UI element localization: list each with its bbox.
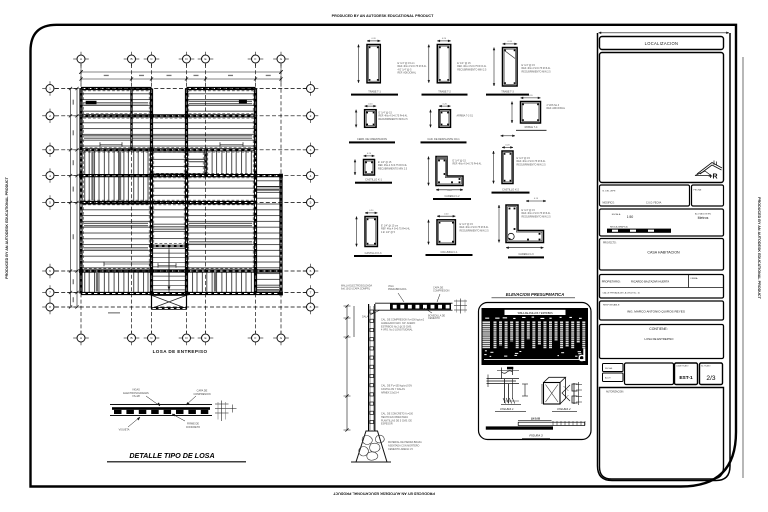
svg-text:CADENA C-3: CADENA C-3 bbox=[518, 253, 534, 256]
svg-text:1: 1 bbox=[49, 87, 51, 91]
svg-text:ESPESOR: ESPESOR bbox=[381, 423, 393, 426]
svg-text:4 E' 1/4" @ 5: 4 E' 1/4" @ 5 bbox=[381, 231, 396, 234]
svg-text:PROYECTO:: PROYECTO: bbox=[603, 242, 617, 244]
svg-text:CASTILLO K-1: CASTILLO K-1 bbox=[365, 179, 382, 182]
svg-text:REGLA GRAFICA: REGLA GRAFICA bbox=[610, 225, 628, 228]
svg-text:FECHA:: FECHA: bbox=[605, 367, 613, 370]
svg-text:REF. ADICIONAL: REF. ADICIONAL bbox=[398, 72, 417, 75]
svg-text:FIGURA 2: FIGURA 2 bbox=[557, 407, 571, 411]
svg-text:DETALLE TIPO DE LOSA: DETALLE TIPO DE LOSA bbox=[129, 451, 214, 460]
svg-text:FIRMA:: FIRMA: bbox=[691, 277, 699, 280]
svg-text:TRABE T-3: TRABE T-3 bbox=[501, 90, 514, 93]
svg-text:CEMENTO: CEMENTO bbox=[428, 317, 440, 320]
svg-text:6x6 10/10 (CAPA COMPR.): 6x6 10/10 (CAPA COMPR.) bbox=[341, 288, 370, 291]
svg-text:LOCALIZACION: LOCALIZACION bbox=[645, 41, 679, 46]
svg-text:ELEVACION PRESUPMATICA: ELEVACION PRESUPMATICA bbox=[506, 292, 564, 297]
svg-text:AUTORIZACION:: AUTORIZACION: bbox=[606, 391, 624, 394]
svg-text:CASTILLO K-2: CASTILLO K-2 bbox=[502, 188, 519, 191]
svg-text:MODIFICO:: MODIFICO: bbox=[603, 203, 615, 205]
svg-text:TRABE T-1: TRABE T-1 bbox=[368, 90, 381, 93]
svg-text:F: F bbox=[255, 57, 257, 61]
svg-text:CADENA C-2: CADENA C-2 bbox=[444, 195, 460, 198]
svg-text:EST-1: EST-1 bbox=[679, 375, 693, 381]
svg-text:PRODUCED BY AN AUTODESK EDUCAT: PRODUCED BY AN AUTODESK EDUCATIONAL PROD… bbox=[332, 492, 434, 496]
svg-text:DALA: DALA bbox=[362, 316, 369, 319]
svg-text:PREFABRICADA: PREFABRICADA bbox=[388, 288, 407, 291]
svg-text:RESPONSABLE:: RESPONSABLE: bbox=[603, 304, 620, 307]
svg-text:E: E bbox=[204, 57, 206, 61]
svg-text:6: 6 bbox=[310, 269, 312, 273]
svg-text:CASTILLO K-3: CASTILLO K-3 bbox=[365, 252, 382, 255]
svg-text:CEMENTO-ARENA 1:5: CEMENTO-ARENA 1:5 bbox=[388, 448, 413, 451]
svg-text:RECUBRIMIENTO MIN 2.5: RECUBRIMIENTO MIN 2.5 bbox=[460, 229, 490, 232]
svg-text:1: 1 bbox=[310, 87, 312, 91]
svg-text:FECHA:: FECHA: bbox=[694, 189, 702, 192]
svg-text:CLAVE PLANO: CLAVE PLANO bbox=[676, 365, 689, 368]
svg-text:PRODUCED BY AN AUTODESK EDUCAT: PRODUCED BY AN AUTODESK EDUCATIONAL PROD… bbox=[5, 176, 9, 278]
svg-text:6: 6 bbox=[49, 269, 51, 273]
svg-text:TRABE T-2: TRABE T-2 bbox=[438, 90, 451, 93]
svg-text:LOSA DE ENTREPISO: LOSA DE ENTREPISO bbox=[645, 337, 675, 341]
svg-text:4: 4 bbox=[49, 174, 51, 178]
svg-text:E: E bbox=[204, 336, 206, 340]
svg-text:Metros: Metros bbox=[698, 216, 709, 220]
svg-text:VIGUETA: VIGUETA bbox=[119, 429, 130, 432]
svg-text:RECUBRIMIENTO MIN 2.5: RECUBRIMIENTO MIN 2.5 bbox=[522, 70, 552, 73]
svg-text:ARRIBA 7-3 S1: ARRIBA 7-3 S1 bbox=[457, 115, 474, 118]
svg-text:PROPIETARIO:: PROPIETARIO: bbox=[602, 279, 621, 283]
svg-text:2/3: 2/3 bbox=[706, 375, 715, 382]
svg-text:7: 7 bbox=[49, 291, 51, 295]
svg-text:RECUBRIMIENTO MIN 2.5: RECUBRIMIENTO MIN 2.5 bbox=[522, 215, 552, 218]
svg-text:RECUBRIMIENTO MIN 2.5: RECUBRIMIENTO MIN 2.5 bbox=[517, 163, 547, 166]
svg-text:ARMEX 15x15-4: ARMEX 15x15-4 bbox=[381, 391, 399, 394]
svg-text:PRODUCED BY AN AUTODESK EDUCAT: PRODUCED BY AN AUTODESK EDUCATIONAL PROD… bbox=[332, 14, 434, 18]
svg-text:ING. MARCO ANTONIO QUIROS REYE: ING. MARCO ANTONIO QUIROS REYES bbox=[627, 310, 685, 314]
svg-text:2: 2 bbox=[49, 114, 51, 118]
svg-text:RECUBRIMIENTO MIN 2.5: RECUBRIMIENTO MIN 2.5 bbox=[379, 118, 409, 121]
svg-text:+R: +R bbox=[708, 174, 717, 181]
svg-text:4: 4 bbox=[310, 174, 312, 178]
svg-text:LOSA DE ENTREPISO: LOSA DE ENTREPISO bbox=[153, 349, 208, 354]
svg-text:CONTIENE:: CONTIENE: bbox=[649, 327, 668, 331]
svg-text:F: F bbox=[255, 336, 257, 340]
svg-text:ESCALA: ESCALA bbox=[612, 213, 621, 216]
svg-text:4 VRS. No.3 LONGITUDINAL: 4 VRS. No.3 LONGITUDINAL bbox=[381, 329, 413, 332]
svg-text:5: 5 bbox=[310, 201, 312, 205]
svg-text:COLUMNA C-1: COLUMNA C-1 bbox=[440, 251, 458, 254]
svg-text:FIGURA 3: FIGURA 3 bbox=[529, 434, 543, 438]
svg-text:7: 7 bbox=[310, 291, 312, 295]
svg-text:ROBLE 7-4: ROBLE 7-4 bbox=[525, 126, 538, 129]
svg-text:3: 3 bbox=[310, 148, 312, 152]
svg-text:RICARDO BALTAZAR HUERTA: RICARDO BALTAZAR HUERTA bbox=[631, 279, 669, 283]
svg-text:CAD. DE DESPLANTE CD-1: CAD. DE DESPLANTE CD-1 bbox=[427, 138, 460, 141]
svg-text:B: B bbox=[130, 57, 132, 61]
svg-text:TABLA DE ANILLOS Y ESTRIBOS: TABLA DE ANILLOS Y ESTRIBOS bbox=[517, 312, 553, 315]
svg-text:VS-4/8: VS-4/8 bbox=[132, 395, 140, 398]
svg-text:3: 3 bbox=[49, 148, 51, 152]
svg-text:1:50: 1:50 bbox=[627, 215, 634, 219]
svg-text:RECUBRIMIENTO MIN 2.5: RECUBRIMIENTO MIN 2.5 bbox=[378, 167, 408, 170]
svg-text:RECUBRIMIENTO MIN 2.5: RECUBRIMIENTO MIN 2.5 bbox=[457, 68, 487, 71]
svg-text:REF. ADICIONAL: REF. ADICIONAL bbox=[547, 107, 566, 110]
svg-text:COMPRESION: COMPRESION bbox=[193, 393, 210, 396]
svg-text:2: 2 bbox=[310, 114, 312, 118]
svg-text:CASA HABITACION: CASA HABITACION bbox=[647, 251, 680, 255]
svg-text:8: 8 bbox=[49, 305, 51, 309]
svg-text:No. PLANO: No. PLANO bbox=[701, 365, 711, 368]
svg-text:8: 8 bbox=[310, 305, 312, 309]
svg-text:ACOT:: ACOT: bbox=[605, 377, 611, 380]
svg-text:CALLE PRIVADA DE LA CRUZ No. 1: CALLE PRIVADA DE LA CRUZ No. 10 bbox=[603, 291, 641, 294]
svg-text:CONCRETO: CONCRETO bbox=[186, 426, 200, 429]
svg-text:B: B bbox=[130, 336, 132, 340]
svg-text:PRODUCED BY AN AUTODESK EDUCAT: PRODUCED BY AN AUTODESK EDUCATIONAL PROD… bbox=[757, 197, 761, 299]
svg-text:N. DEL JEFE: N. DEL JEFE bbox=[603, 191, 616, 193]
svg-text:COMPRESION: COMPRESION bbox=[433, 289, 450, 292]
svg-text:LN 0.05: LN 0.05 bbox=[531, 417, 541, 421]
svg-text:CERR. DE CIMENTACION: CERR. DE CIMENTACION bbox=[357, 138, 387, 141]
svg-text:FIGURA 1: FIGURA 1 bbox=[500, 407, 514, 411]
svg-text:C.U.D. FECHA: C.U.D. FECHA bbox=[646, 202, 662, 205]
svg-text:REF. 4No.4 S=0.75 R=6.4L: REF. 4No.4 S=0.75 R=6.4L bbox=[453, 163, 483, 166]
svg-text:5: 5 bbox=[49, 201, 51, 205]
